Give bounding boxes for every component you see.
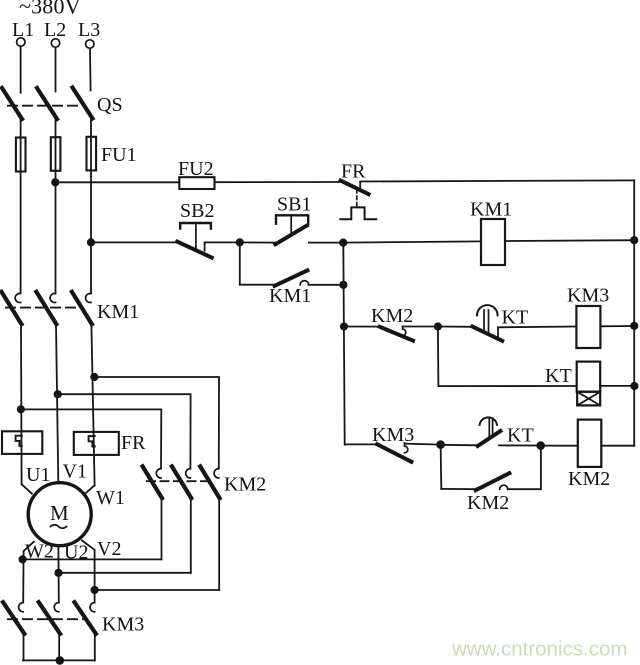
wire KT NC to node E <box>499 444 541 446</box>
node junction KT coil right rail <box>630 382 638 390</box>
svg-text:KM2: KM2 <box>467 492 509 514</box>
svg-text:M: M <box>50 501 69 525</box>
timer KT delayed NO contact <box>472 305 528 341</box>
wire node A to SB1 <box>240 241 276 243</box>
wire node B to KM1 coil <box>343 241 481 242</box>
wire rung2 left to KM2 NC <box>344 326 381 328</box>
node E junction rung3 <box>536 441 545 450</box>
disconnect switch QS pole 2 blade <box>37 88 57 119</box>
svg-text:SB1: SB1 <box>277 194 311 216</box>
wire L2 tap to FU2 <box>55 181 179 183</box>
svg-text:KM2: KM2 <box>224 474 266 496</box>
thermal relay FR element symbol <box>340 207 376 219</box>
wire right rail <box>633 180 635 445</box>
node junction phase 3 delta tap <box>90 373 98 381</box>
node junction U2 bus <box>54 569 62 577</box>
node L3 terminal <box>78 19 100 48</box>
node junction rung2 right rail <box>630 322 638 330</box>
wire FR to right rail <box>360 180 634 181</box>
thermal relay FR heater element phase 3 <box>74 432 119 455</box>
node junction star point <box>56 656 65 665</box>
wire phase 3 tap to KM2 pole 3 <box>94 377 219 468</box>
wire KM3 coil to right rail <box>600 325 634 327</box>
wire KM2 coil to right rail <box>601 445 634 447</box>
disconnect switch QS linkage <box>8 105 79 107</box>
wire phase 1 tap to KM2 pole 1 <box>21 409 161 468</box>
disconnect switch QS pole 3 blade <box>73 88 93 119</box>
wire L2 drop to QS <box>55 47 57 91</box>
wire phase 2 KM1 to motor <box>56 324 58 482</box>
node junction V2 bus <box>91 586 99 594</box>
svg-text:KM1: KM1 <box>269 285 311 307</box>
wire node D to KT NC contact <box>441 444 479 447</box>
wire rung3 left to KM3 NC <box>345 443 378 445</box>
node C junction rung2 <box>434 322 442 330</box>
wire SB2 to node A <box>205 241 240 243</box>
wire phase 1 KM1 to motor <box>20 324 23 484</box>
node L1 terminal <box>12 19 34 46</box>
contactor KM3 star contact pole 3 <box>75 602 96 660</box>
svg-text:KM2: KM2 <box>371 305 413 327</box>
wire KM2 aux to node E <box>508 446 541 490</box>
thermal relay FR actuator dashed stem <box>356 190 358 207</box>
node D junction rung3 <box>436 440 445 449</box>
svg-text:www.cntronics.com: www.cntronics.com <box>451 638 627 661</box>
thermal relay FR heater element phase 1 <box>2 431 42 454</box>
contactor KM3 NC interlock contact <box>372 424 414 462</box>
wire phase 2 tap to KM2 pole 2 <box>58 394 191 468</box>
wire L3 tap to SB2 <box>91 241 177 243</box>
node junction W2 bus <box>19 555 27 563</box>
wire KT contact to KM3 coil <box>498 326 576 329</box>
wire to KT coil <box>438 385 576 387</box>
contactor coil KM3 <box>576 306 600 348</box>
svg-text:KT: KT <box>507 425 534 447</box>
thermal relay FR NC contact seat <box>359 182 361 189</box>
fuse FU1 pole 1 <box>16 138 26 172</box>
disconnect switch QS pole 1 blade <box>2 88 22 119</box>
node junction self-hold right <box>339 281 347 289</box>
contactor KM2 main contact pole 2 <box>172 466 191 572</box>
svg-text:U1: U1 <box>26 464 50 486</box>
contactor KM1 main contact pole 2 <box>36 292 56 324</box>
svg-text:~380V: ~380V <box>19 0 81 19</box>
motor M tilde <box>51 525 67 529</box>
wire U2 to KM2 pole 2 bus <box>59 572 191 574</box>
wire W2 to KM2 pole 1 bus <box>23 558 162 560</box>
contactor KM2 auxiliary NO self-hold contact <box>467 473 509 514</box>
wire node C down to KT coil <box>437 327 440 387</box>
wire V2 to KM2 pole 3 bus <box>95 589 220 591</box>
wire L3 drop to QS <box>89 48 92 90</box>
wire FU2 to FR <box>215 181 342 183</box>
node junction L2 control tap <box>51 178 59 186</box>
node junction phase 1 delta tap <box>17 405 25 413</box>
wire SB1 to node B <box>309 242 343 244</box>
pushbutton SB1 start (NO) <box>275 194 311 245</box>
wire QS to FU1 phase 2 <box>55 119 57 293</box>
node junction phase 2 delta tap <box>54 390 62 398</box>
wire star point bus <box>23 659 95 661</box>
wire phase 3 KM1 to motor <box>91 324 94 485</box>
contactor KM2 main linkage <box>147 480 209 482</box>
svg-text:SB2: SB2 <box>180 200 214 222</box>
svg-text:V2: V2 <box>97 538 121 560</box>
contactor KM1 main contact pole 1 <box>2 292 22 324</box>
wire KM1 aux to node B rail <box>309 284 344 286</box>
svg-text:FR: FR <box>121 432 146 454</box>
timer KT delayed NC contact <box>478 417 534 446</box>
contactor KM1 main linkage <box>6 307 82 309</box>
contactor KM3 star contact pole 2 <box>39 602 60 660</box>
timer coil KT <box>545 362 600 406</box>
wire to KM1 aux contact <box>240 284 276 286</box>
wire KM1 coil to right rail <box>505 239 634 242</box>
svg-text:L2: L2 <box>44 19 66 41</box>
wire node E to KM2 coil <box>541 445 578 447</box>
wire node A down to KM1 aux <box>239 242 241 284</box>
svg-text:W1: W1 <box>96 487 125 509</box>
wire to KM2 aux contact <box>441 488 476 490</box>
contactor KM3 star linkage <box>8 618 84 620</box>
svg-text:KM1: KM1 <box>97 301 139 323</box>
node junction KM1 rung right rail <box>630 236 638 244</box>
svg-text:L3: L3 <box>78 19 100 41</box>
fuse FU1 pole 2 <box>51 137 61 171</box>
wire KM2 NC to node C <box>403 326 438 328</box>
svg-text:KM3: KM3 <box>567 285 609 307</box>
node junction L3 control tap <box>87 238 95 246</box>
svg-text:FU2: FU2 <box>178 158 214 180</box>
wire KT coil to right rail <box>600 385 634 387</box>
contactor KM3 star contact pole 1 <box>3 602 24 660</box>
wire node D down to KM2 aux <box>440 445 443 489</box>
motor terminal W2 lead <box>23 542 34 603</box>
pushbutton SB2 stop (NC) <box>177 200 214 258</box>
contactor KM2 NC interlock contact <box>371 305 413 341</box>
contactor KM2 main contact pole 1 <box>143 466 162 559</box>
svg-text:FR: FR <box>341 161 366 183</box>
node L2 terminal <box>44 19 66 47</box>
wire QS to FU1 phase 3 <box>90 119 92 293</box>
node B junction after SB1 <box>339 239 347 247</box>
svg-text:KM1: KM1 <box>470 199 512 221</box>
svg-text:KT: KT <box>545 365 572 387</box>
fuse FU2 <box>179 177 214 189</box>
wire left control rail down <box>343 243 344 445</box>
thermal relay FR NC contact blade <box>341 181 369 195</box>
motor terminal U2 lead <box>57 547 59 602</box>
motor M stator circle <box>28 483 91 546</box>
svg-text:FU1: FU1 <box>101 144 137 166</box>
svg-text:KT: KT <box>502 307 529 329</box>
node junction rung2 left <box>340 322 348 330</box>
node A junction after SB2 <box>236 238 244 246</box>
wire QS to FU1 phase 1 <box>20 119 22 293</box>
motor terminal W1 lead <box>85 485 95 493</box>
svg-text:KM3: KM3 <box>102 614 144 636</box>
contactor KM1 auxiliary NO self-hold contact <box>269 270 311 307</box>
svg-text:KM2: KM2 <box>568 468 610 490</box>
motor terminal U1 lead <box>22 484 32 493</box>
wire KM3 NC to node D <box>405 444 441 445</box>
svg-text:QS: QS <box>97 94 123 116</box>
motor terminal V2 lead <box>82 541 95 603</box>
fuse FU1 pole 3 <box>87 137 97 171</box>
contactor KM2 main contact pole 3 <box>200 466 219 590</box>
contactor coil KM2 <box>578 420 602 467</box>
contactor coil KM1 <box>481 219 505 265</box>
contactor KM1 main contact pole 3 <box>72 292 92 324</box>
wire node C to KT NO contact <box>438 326 473 328</box>
wire L1 drop to QS <box>20 46 22 92</box>
svg-text:V1: V1 <box>63 461 87 483</box>
svg-text:KM3: KM3 <box>372 424 414 446</box>
